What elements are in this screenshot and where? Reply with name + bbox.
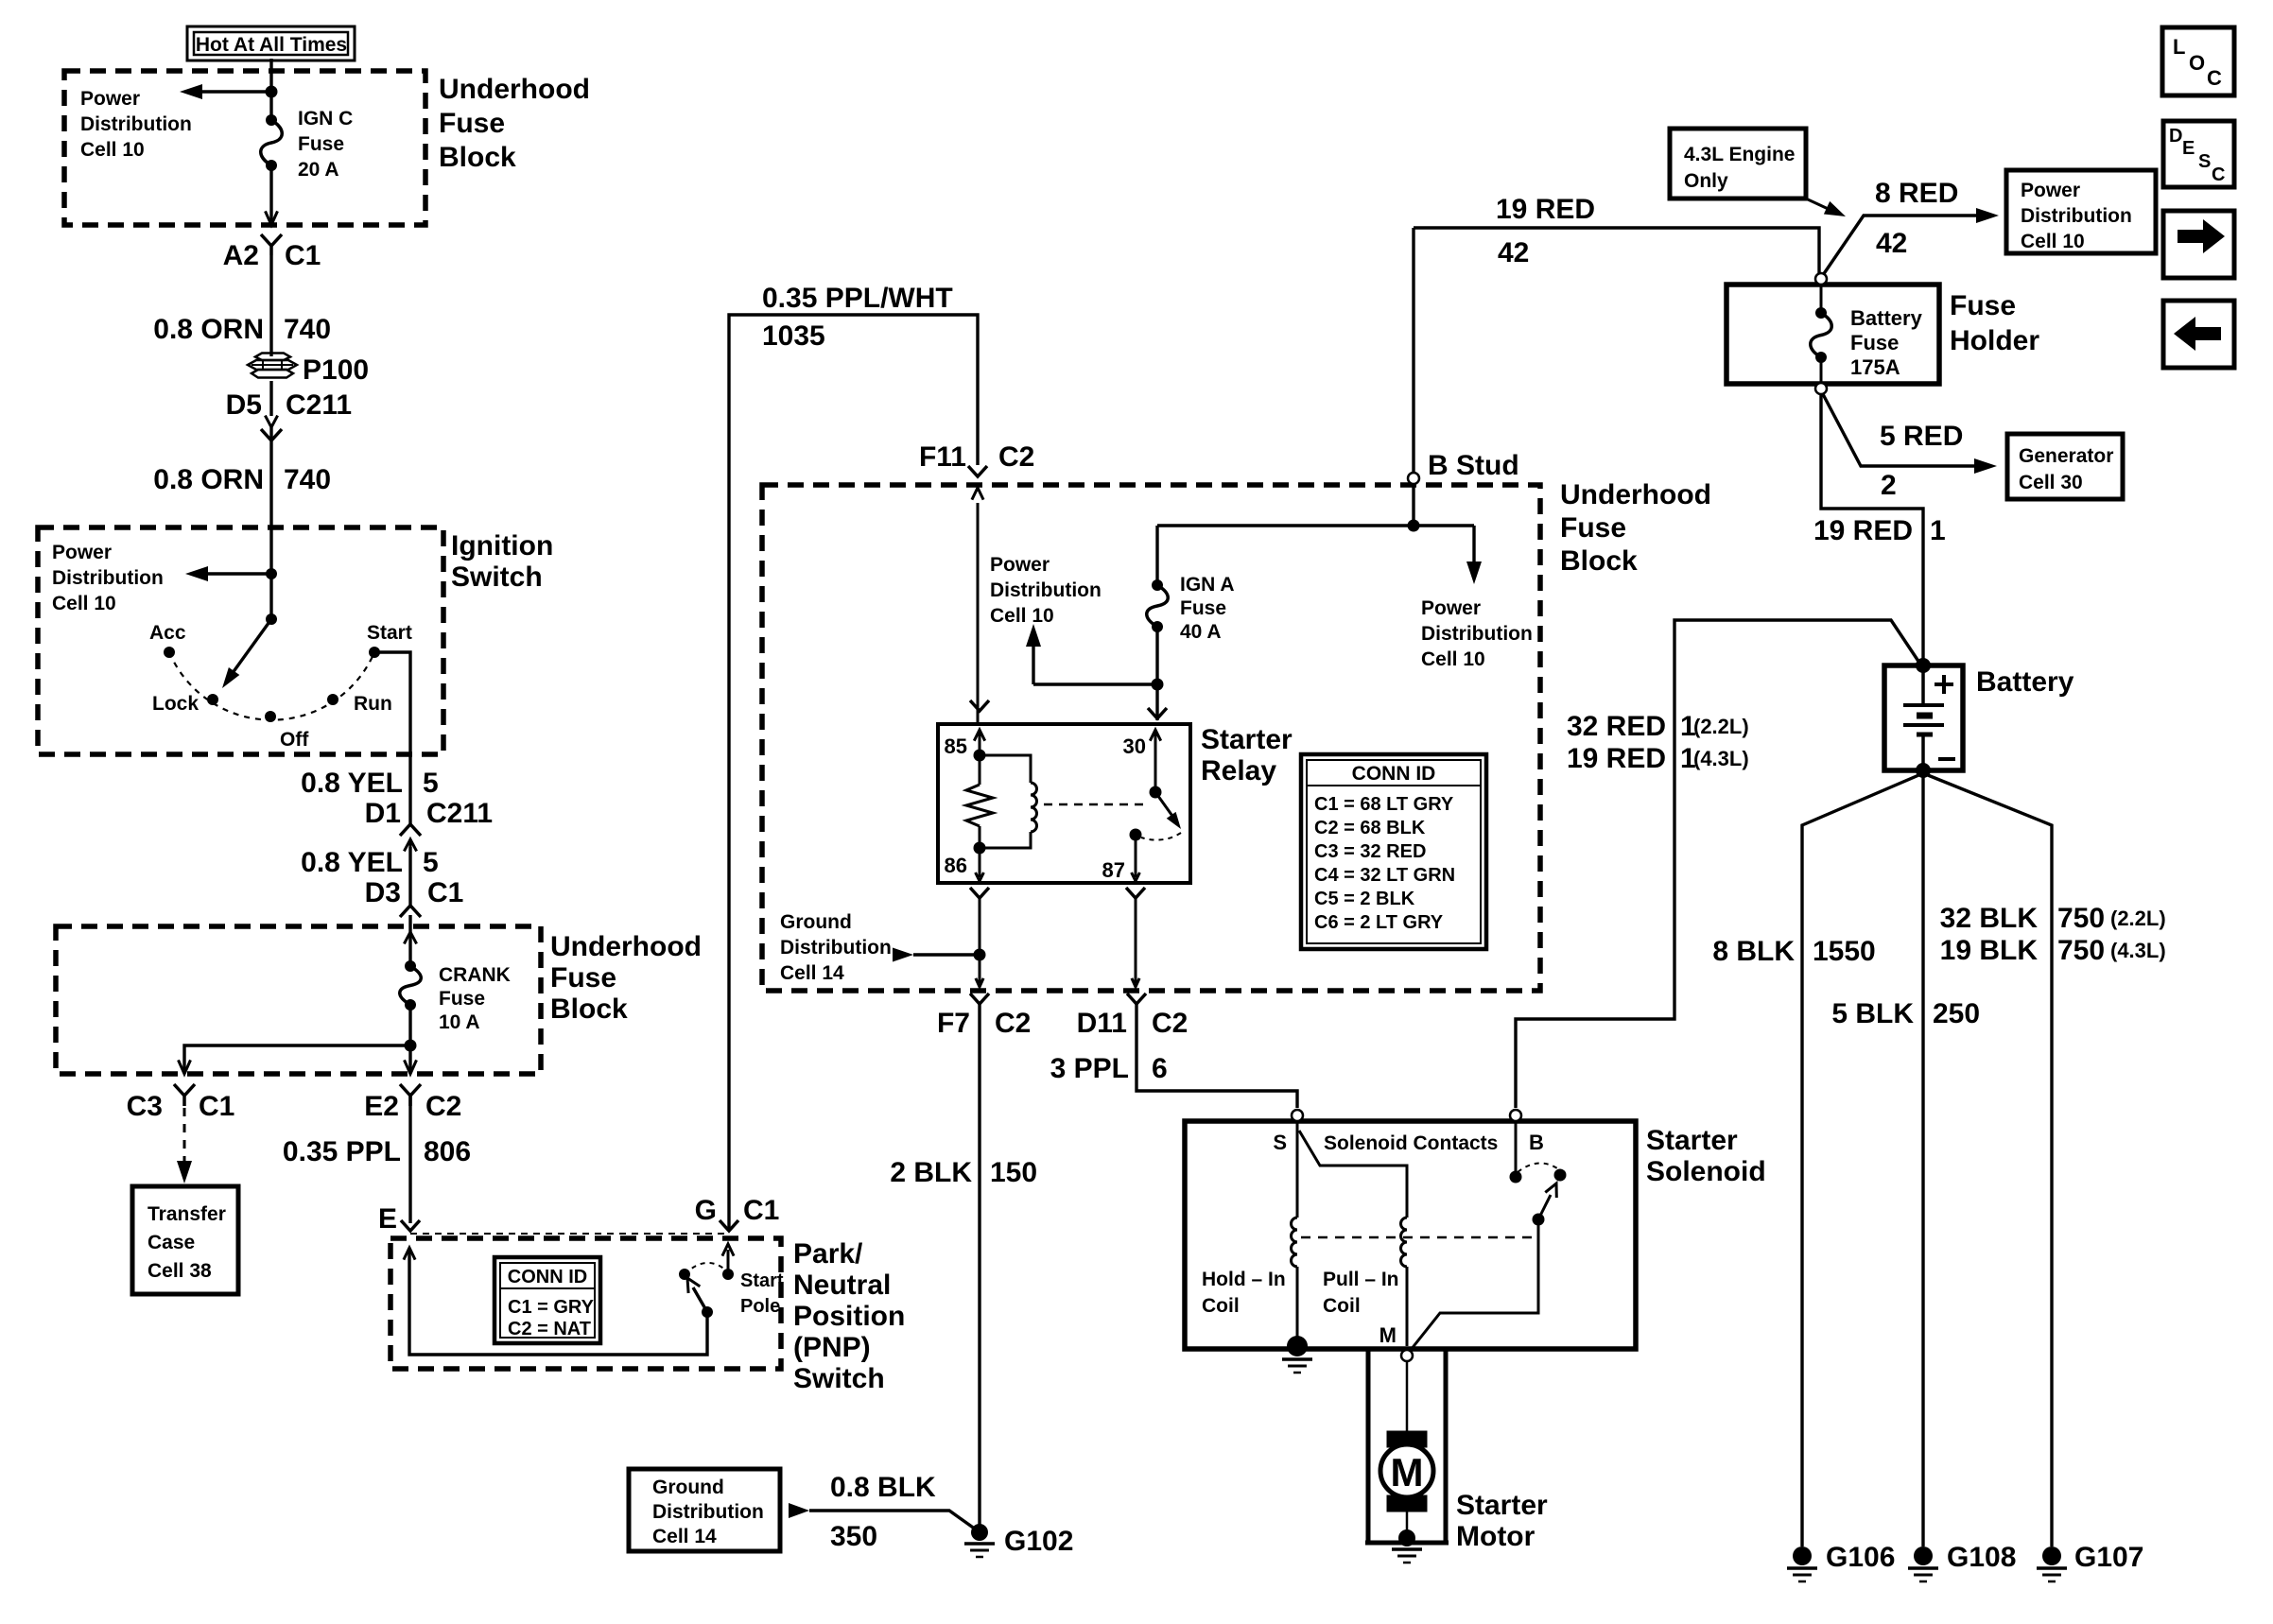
wire: 32 RED/19 RED battery feed to solenoid B [1516, 620, 1919, 1108]
relay switch blade (arrow) [1155, 792, 1174, 819]
wire: IGN A output [1155, 627, 1158, 720]
wire: start pole up arrow to G [727, 1250, 730, 1274]
svg-text:C1: C1 [285, 240, 321, 271]
relay dashed contact arc [1141, 833, 1181, 840]
terminal circle S [1292, 1110, 1303, 1121]
svg-text:Coil: Coil [1323, 1295, 1361, 1317]
terminal circle M [1401, 1350, 1413, 1361]
svg-text:C1 = 68 LT GRY: C1 = 68 LT GRY [1314, 794, 1454, 815]
wire: B stud bus inside fuse block [1412, 483, 1414, 526]
wire: branch left inside fuse block [184, 1045, 410, 1070]
svg-text:Battery: Battery [1850, 306, 1923, 330]
contact dot Lock [207, 694, 218, 705]
contact dot PNP blade pivot [702, 1306, 713, 1318]
connector D3/C1 (chevron up) [400, 906, 421, 917]
svg-text:175A: 175A [1850, 355, 1900, 379]
svg-text:C5 = 2 BLK: C5 = 2 BLK [1314, 889, 1415, 909]
svg-text:750: 750 [2057, 903, 2105, 934]
node: Hot At All Times tag box [187, 26, 355, 60]
svg-text:C2 = NAT: C2 = NAT [508, 1319, 591, 1339]
svg-text:Cell 10: Cell 10 [52, 593, 116, 614]
svg-text:4.3L Engine: 4.3L Engine [1684, 144, 1795, 165]
svg-text:S: S [2198, 151, 2211, 172]
wire: S to pull-in coil [1299, 1131, 1407, 1218]
wire: CRANK output down [408, 1005, 411, 1070]
svg-text:B Stud: B Stud [1428, 450, 1519, 481]
junction dot B stud bus [1408, 520, 1420, 532]
svg-text:CONN ID: CONN ID [1352, 763, 1436, 785]
svg-text:C1: C1 [743, 1195, 779, 1226]
svg-text:Battery: Battery [1976, 666, 2074, 698]
wire: 0.8 ORN 740 lower segment [269, 427, 272, 529]
starter motor housing [1366, 1349, 1371, 1543]
connector C211 (pass through, double chevron) [265, 416, 277, 427]
svg-text:Run: Run [354, 693, 392, 715]
svg-text:1550: 1550 [1813, 936, 1876, 967]
wire: 19 RED 42 from B stud to fuse holder [1414, 228, 1819, 274]
svg-text:Fuse: Fuse [1560, 512, 1626, 544]
wire: 8 RED 42 to Power Distribution [1823, 216, 1982, 275]
svg-text:750: 750 [2057, 935, 2105, 966]
svg-text:C211: C211 [286, 389, 352, 421]
relay pin 85 entry [970, 700, 989, 711]
svg-text:Power: Power [80, 88, 140, 110]
svg-text:Distribution: Distribution [652, 1501, 764, 1523]
svg-text:C6 = 2 LT GRY: C6 = 2 LT GRY [1314, 912, 1444, 933]
svg-text:Cell 10: Cell 10 [1421, 648, 1485, 670]
wire: into CRANK fuse with arrow [408, 915, 411, 966]
svg-text:Fuse: Fuse [1850, 331, 1899, 354]
svg-text:C2: C2 [1152, 1008, 1188, 1039]
nav box DESC [2163, 121, 2234, 187]
svg-text:20 A: 20 A [298, 159, 339, 181]
park/neutral position switch dashed box [390, 1238, 781, 1369]
contact dot PNP left [679, 1269, 690, 1280]
relay coil resistor [979, 755, 981, 785]
starter motor M symbol [1387, 1431, 1427, 1447]
wire: IGN C fuse output with arrow [269, 165, 272, 221]
wire: 0.8 ORN 740 upper segment [269, 255, 272, 356]
svg-text:Ground: Ground [652, 1477, 724, 1498]
svg-text:Switch: Switch [451, 561, 543, 593]
wire: arrow to Power Distribution (right) [1472, 526, 1475, 567]
battery box [1884, 665, 1963, 770]
wire: battery negative to G106 [1802, 773, 1923, 1546]
svg-text:86: 86 [945, 854, 967, 877]
svg-text:C1: C1 [427, 877, 463, 908]
ground G102 [971, 1524, 988, 1541]
svg-text:G102: G102 [1004, 1526, 1073, 1557]
wire: 87 leg to D11 [1135, 898, 1137, 983]
svg-text:Cell 14: Cell 14 [652, 1526, 717, 1547]
contact dot solenoid B side [1510, 1171, 1522, 1183]
svg-text:2: 2 [1881, 470, 1897, 501]
wire: 0.35 PPL 806 [408, 1096, 411, 1223]
svg-text:(2.2L): (2.2L) [1693, 715, 1749, 738]
svg-text:(PNP): (PNP) [793, 1332, 871, 1363]
svg-text:Cell 14: Cell 14 [780, 962, 844, 984]
svg-text:Acc: Acc [149, 622, 186, 644]
svg-text:Ignition: Ignition [451, 530, 553, 561]
svg-text:C2: C2 [425, 1091, 461, 1122]
svg-text:D5: D5 [226, 389, 262, 421]
svg-text:19 RED: 19 RED [1813, 515, 1913, 546]
hold-in coil [1292, 1218, 1297, 1267]
svg-text:Hot At All Times: Hot At All Times [196, 34, 347, 56]
fuse IGN C 20 A [266, 114, 277, 126]
connector common line E-G (thin dashed) [410, 1233, 729, 1235]
node: Transfer Case Cell 38 box [132, 1186, 238, 1294]
connector below relay 85/86 leg [970, 888, 989, 898]
svg-text:Fuse: Fuse [298, 133, 344, 155]
svg-text:C211: C211 [426, 798, 493, 829]
relay coil [980, 755, 1031, 783]
svg-text:Distribution: Distribution [80, 113, 192, 135]
contact dot solenoid blade target [1554, 1169, 1567, 1182]
svg-text:Underhood: Underhood [550, 931, 702, 962]
svg-text:Fuse: Fuse [439, 108, 505, 139]
node: B Stud terminal [1412, 228, 1414, 472]
svg-text:IGN C: IGN C [298, 108, 353, 130]
svg-text:G106: G106 [1826, 1542, 1895, 1573]
svg-text:D: D [2169, 126, 2182, 147]
relay mechanical link (dashed) [1044, 803, 1148, 806]
svg-text:1: 1 [1930, 515, 1946, 546]
wire: ground distribution branch [913, 953, 980, 956]
connector E (chevron) [401, 1220, 420, 1231]
svg-text:A2: A2 [223, 240, 259, 271]
svg-text:Cell 10: Cell 10 [2021, 231, 2085, 252]
label: battery - sign [1938, 757, 1955, 761]
svg-text:CRANK: CRANK [439, 964, 511, 986]
wire: dashed lead to Transfer Case [183, 1108, 186, 1161]
svg-text:Starter: Starter [1646, 1125, 1738, 1156]
nav box arrow left [2163, 301, 2234, 368]
svg-text:5 RED: 5 RED [1880, 421, 1963, 452]
svg-text:E: E [378, 1203, 397, 1235]
svg-text:30: 30 [1123, 734, 1146, 758]
svg-text:3 PPL: 3 PPL [1050, 1053, 1129, 1084]
underhood fuse block center dashed box [762, 485, 1540, 991]
contact dot PNP start pole [722, 1269, 734, 1280]
svg-text:Lock: Lock [152, 693, 199, 715]
svg-text:0.35 PPL/WHT: 0.35 PPL/WHT [762, 283, 953, 314]
wire: S to hold-in coil [1296, 1121, 1299, 1218]
connector C211 lower (chevron pair up) [400, 824, 421, 836]
svg-text:42: 42 [1876, 228, 1907, 259]
svg-text:19 RED: 19 RED [1496, 194, 1595, 225]
svg-text:Distribution: Distribution [1421, 623, 1533, 645]
node: 4.3L Engine Only box [1670, 129, 1806, 199]
junction dot at IGN C feed [266, 86, 278, 98]
wire: motor to ground [1406, 1512, 1409, 1535]
junction dot pin 86 [974, 842, 986, 855]
svg-text:L: L [2173, 35, 2185, 59]
wire: Start contact to D1 connector [374, 652, 410, 824]
PNP dashed contact arc [685, 1263, 726, 1274]
contact dot Start [369, 647, 380, 658]
arrow: ground distribution callout [789, 1503, 809, 1518]
svg-text:Distribution: Distribution [780, 937, 892, 959]
svg-text:Fuse: Fuse [439, 988, 485, 1010]
svg-text:F7: F7 [937, 1008, 970, 1039]
wire: bus down to IGN A fuse [1155, 526, 1158, 585]
wire: branch to Power Distribution (up arrow) [1033, 682, 1157, 685]
connector F7/C2 [970, 993, 989, 1004]
svg-text:Solenoid: Solenoid [1646, 1156, 1766, 1187]
ground: solenoid case [1287, 1336, 1308, 1356]
svg-text:B: B [1529, 1131, 1544, 1154]
svg-text:806: 806 [424, 1136, 471, 1167]
connector G (chevron) [720, 1220, 738, 1231]
wire: 86 leg to F7 [979, 898, 981, 983]
arrow: 4.3L Engine Only callout [1808, 199, 1834, 212]
svg-text:42: 42 [1498, 237, 1529, 268]
svg-text:5: 5 [423, 768, 439, 799]
contact dot relay common [1150, 786, 1162, 799]
svg-text:Solenoid Contacts: Solenoid Contacts [1324, 1132, 1498, 1154]
svg-text:Power: Power [990, 554, 1050, 576]
svg-text:P100: P100 [303, 354, 369, 386]
wire: B terminal to contact [1515, 1121, 1518, 1177]
wire: battery negative to G108 [1921, 770, 1924, 1546]
contact dot Acc [164, 647, 175, 658]
svg-text:E: E [2182, 138, 2195, 159]
wire: hot feed into fuse block [269, 59, 272, 120]
svg-text:M: M [1379, 1323, 1397, 1347]
svg-text:Cell 10: Cell 10 [990, 605, 1054, 627]
ignition position arc (dashed) [169, 652, 374, 720]
nav box LOC [2162, 27, 2234, 95]
svg-text:Case: Case [147, 1232, 195, 1253]
fuse IGN A 40 A [1152, 579, 1163, 591]
svg-text:Park/: Park/ [793, 1238, 863, 1270]
svg-text:G108: G108 [1947, 1542, 2016, 1573]
svg-text:40 A: 40 A [1180, 621, 1222, 643]
junction dot ignition feed [266, 568, 277, 579]
starter relay box [938, 724, 1190, 883]
junction dot IGN A output [1152, 679, 1164, 691]
contact dot relay pin 87 [1130, 829, 1142, 841]
pass-through grommet P100 [255, 354, 290, 361]
svg-text:Power: Power [2021, 180, 2080, 201]
terminal circle B [1510, 1110, 1521, 1121]
ground: starter motor [1398, 1529, 1415, 1546]
svg-text:IGN A: IGN A [1180, 574, 1235, 596]
svg-text:Pull – In: Pull – In [1323, 1269, 1399, 1290]
wire: below P100 [269, 381, 272, 416]
svg-text:D3: D3 [365, 877, 401, 908]
wire: pull-in coil to M [1406, 1267, 1409, 1346]
svg-text:740: 740 [284, 314, 331, 345]
terminal circle fuse holder top [1815, 273, 1827, 285]
junction dot CRANK output [405, 1040, 417, 1052]
wire: 0.8 YEL 5 lower segment [408, 847, 411, 906]
svg-text:150: 150 [990, 1157, 1037, 1188]
node: CONN ID table (PNP) [495, 1257, 600, 1343]
pull-in coil [1401, 1218, 1408, 1267]
junction dot rotor pivot [266, 613, 277, 625]
node: Power Distribution Cell 10 box (top right) [2006, 170, 2156, 253]
battery positive terminal dot [1916, 658, 1931, 673]
svg-text:C: C [2212, 164, 2225, 185]
svg-text:Ground: Ground [780, 911, 852, 933]
junction dot ground distribution tap [974, 949, 986, 961]
underhood fuse block 1 dashed box [64, 71, 425, 225]
wire: PNP internal E leg [404, 1248, 415, 1260]
svg-text:8 BLK: 8 BLK [1712, 936, 1795, 967]
svg-text:Block: Block [439, 142, 516, 173]
relay pin 30 wire [1150, 730, 1160, 741]
junction dot pin 85 [974, 750, 986, 762]
connector D11/C2 [1127, 993, 1146, 1004]
ground G106 [1793, 1546, 1812, 1565]
connector below relay 87 leg [1126, 888, 1145, 898]
ground G107 [2042, 1546, 2061, 1565]
svg-text:(4.3L): (4.3L) [2110, 939, 2166, 962]
svg-text:Distribution: Distribution [990, 579, 1102, 601]
wire: 19 RED 1 to battery [1821, 394, 1923, 659]
svg-text:Starter: Starter [1456, 1490, 1548, 1521]
svg-text:Fuse: Fuse [1180, 597, 1226, 619]
svg-text:0.35 PPL: 0.35 PPL [283, 1136, 401, 1167]
svg-text:2 BLK: 2 BLK [890, 1157, 972, 1188]
svg-text:Off: Off [280, 729, 309, 751]
svg-text:C2 = 68 BLK: C2 = 68 BLK [1314, 818, 1426, 838]
svg-text:32 BLK: 32 BLK [1940, 903, 2039, 934]
wire: M to motor [1406, 1361, 1409, 1432]
svg-text:Switch: Switch [793, 1363, 885, 1394]
wire: branch to Power Distribution (arrow left) [195, 90, 271, 93]
svg-text:Block: Block [550, 993, 628, 1025]
fuse holder box [1726, 285, 1939, 384]
svg-text:6: 6 [1152, 1053, 1168, 1084]
svg-text:F11: F11 [919, 441, 966, 473]
connector into relay pin 30 [1148, 708, 1167, 718]
svg-text:Power: Power [1421, 597, 1481, 619]
ignition rotor arm (arrow to Lock) [230, 619, 271, 677]
node: CONN ID table (fuse block) [1301, 754, 1486, 949]
wire: 0.8 BLK 350 to G102 [809, 1511, 976, 1529]
battery cell plates [1921, 665, 1925, 703]
wire: battery negative to G107 [1923, 773, 2052, 1546]
svg-text:G: G [695, 1195, 717, 1226]
wire: 3 PPL from D11 to solenoid S [1136, 1004, 1297, 1108]
wire: 2 BLK 150 to G102 [978, 1004, 980, 1526]
solenoid dashed contact arc [1518, 1163, 1560, 1172]
underhood fuse block 2 dashed box [56, 926, 541, 1074]
node: Generator Cell 30 box [2007, 434, 2123, 499]
svg-text:C2: C2 [995, 1008, 1031, 1039]
nav box arrow right [2163, 211, 2234, 278]
svg-text:8 RED: 8 RED [1875, 178, 1958, 209]
terminal circle fuse holder bottom [1815, 383, 1827, 394]
svg-text:C4 = 32 LT GRN: C4 = 32 LT GRN [1314, 865, 1455, 886]
svg-text:C3 = 32 RED: C3 = 32 RED [1314, 841, 1426, 862]
svg-text:M: M [1391, 1450, 1424, 1494]
svg-text:350: 350 [830, 1521, 877, 1552]
battery negative terminal dot [1916, 763, 1931, 778]
svg-text:740: 740 [284, 464, 331, 495]
contact dot Run [327, 694, 338, 705]
wire: pin 87 down [1135, 835, 1137, 877]
svg-text:250: 250 [1933, 998, 1980, 1029]
svg-text:G107: G107 [2074, 1542, 2143, 1573]
svg-text:Distribution: Distribution [52, 567, 164, 589]
wire: F11 into fuse block with arrow [977, 503, 980, 724]
svg-text:0.8 ORN: 0.8 ORN [153, 464, 264, 495]
svg-text:D11: D11 [1077, 1008, 1127, 1039]
svg-text:1035: 1035 [762, 320, 825, 352]
node: Ground Distribution Cell 14 box (bottom) [629, 1469, 780, 1551]
svg-text:Relay: Relay [1201, 755, 1276, 786]
fuse Battery 175A [1820, 284, 1823, 313]
svg-text:Cell 10: Cell 10 [80, 139, 145, 161]
svg-text:CONN ID: CONN ID [508, 1267, 587, 1287]
svg-text:0.8 YEL: 0.8 YEL [301, 768, 403, 799]
wire: hold-in coil to case ground [1296, 1267, 1299, 1342]
fuse CRANK 10 A [405, 960, 416, 972]
wire: 5 RED 2 to Generator [1823, 394, 1980, 466]
svg-text:(2.2L): (2.2L) [2110, 907, 2166, 930]
svg-text:Underhood: Underhood [439, 74, 590, 105]
svg-text:C2: C2 [998, 441, 1034, 473]
connector C3/C1 [174, 1084, 195, 1106]
svg-text:Fuse: Fuse [1950, 290, 2016, 321]
svg-text:C1: C1 [199, 1091, 234, 1122]
svg-text:(4.3L): (4.3L) [1693, 747, 1749, 770]
svg-text:Cell 30: Cell 30 [2019, 472, 2083, 493]
connector F11/C2 (chevron) [968, 466, 987, 476]
svg-text:Distribution: Distribution [2021, 205, 2132, 227]
svg-text:C1 = GRY: C1 = GRY [508, 1297, 595, 1318]
svg-text:Power: Power [52, 542, 112, 563]
svg-text:0.8 YEL: 0.8 YEL [301, 847, 403, 878]
svg-text:Starter: Starter [1201, 724, 1293, 755]
svg-text:85: 85 [945, 734, 967, 758]
svg-text:Start: Start [367, 622, 412, 644]
svg-text:Only: Only [1684, 170, 1728, 192]
PNP switch blade (arrow to start pole) [693, 1287, 707, 1312]
label: battery + sign [1935, 675, 1953, 694]
svg-text:5 BLK: 5 BLK [1831, 998, 1914, 1029]
svg-text:87: 87 [1102, 858, 1125, 882]
svg-text:E2: E2 [364, 1091, 399, 1122]
svg-text:10 A: 10 A [439, 1011, 480, 1033]
svg-text:S: S [1273, 1131, 1287, 1154]
ground G108 [1914, 1546, 1933, 1565]
contact dot Off [265, 711, 276, 722]
starter solenoid box [1185, 1121, 1636, 1349]
svg-text:C: C [2207, 66, 2222, 90]
svg-text:0.8 BLK: 0.8 BLK [830, 1472, 936, 1503]
svg-text:Motor: Motor [1456, 1521, 1536, 1552]
svg-text:Coil: Coil [1202, 1295, 1240, 1317]
svg-text:Fuse: Fuse [550, 962, 616, 993]
svg-text:Cell 38: Cell 38 [147, 1260, 212, 1282]
svg-text:Block: Block [1560, 545, 1638, 577]
svg-text:Transfer: Transfer [147, 1203, 226, 1225]
svg-text:Position: Position [793, 1301, 905, 1332]
svg-text:C3: C3 [127, 1091, 163, 1122]
svg-text:32 RED: 32 RED [1567, 711, 1666, 742]
svg-text:19 RED: 19 RED [1567, 743, 1666, 774]
solenoid mechanical link (dashed) [1301, 1236, 1532, 1239]
ignition switch dashed box [38, 527, 443, 754]
svg-text:O: O [2189, 51, 2205, 75]
wire: feed inside ignition switch [269, 529, 272, 619]
svg-text:19 BLK: 19 BLK [1940, 935, 2039, 966]
